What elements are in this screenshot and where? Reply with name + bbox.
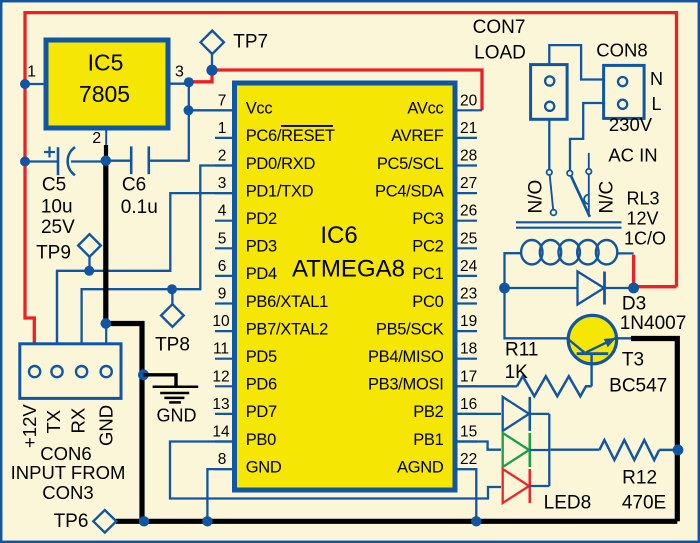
pin number 6 left: [218, 258, 227, 275]
test point TP7: [201, 31, 224, 54]
pin number 8 left: [218, 451, 227, 468]
resistor R11 1K: [517, 376, 592, 396]
pin label 1 of IC5: [27, 64, 36, 81]
pin number 27 right: [460, 175, 477, 192]
pin 5 stub left: [215, 247, 236, 249]
svg-text:14: 14: [212, 424, 230, 441]
pin 27 stub right: [454, 192, 478, 194]
pin 10 stub left: [215, 330, 236, 332]
svg-text:7: 7: [218, 92, 227, 109]
test point TP8: [161, 304, 184, 327]
wire relay junction to T3 collector: [505, 288, 569, 338]
relay pole contact and lever: [567, 171, 590, 217]
ground symbol GND: [143, 375, 198, 403]
label TP6: [54, 511, 89, 532]
svg-text:PB4/MISO: PB4/MISO: [368, 348, 444, 366]
svg-text:18: 18: [460, 341, 477, 358]
wire CON7 to CON8 N: [549, 45, 603, 79]
svg-text:6: 6: [218, 258, 227, 275]
wire red +12V to CON6: [25, 162, 34, 345]
svg-text:IC5: IC5: [88, 50, 124, 76]
svg-text:10u: 10u: [41, 196, 73, 217]
wire TP8 stem: [171, 289, 173, 304]
pin name PD1/TXD: [246, 182, 314, 200]
node D3 cathode junction: [628, 283, 639, 294]
node Vcc junction pin7: [184, 105, 194, 115]
test point TP9: [78, 234, 101, 257]
pin name PC5/SCL: [377, 155, 444, 173]
wire pin2 PD0/RXD to CON6 RX: [82, 166, 235, 346]
pin number 28 right: [460, 148, 477, 165]
pin name PC0: [412, 293, 443, 311]
svg-text:25: 25: [460, 230, 477, 247]
svg-text:7805: 7805: [79, 81, 130, 107]
pin name PB2: [413, 403, 443, 421]
label N/C: [597, 181, 618, 214]
label 230V: [609, 114, 653, 135]
node TP9 junction: [84, 266, 94, 276]
svg-text:AGND: AGND: [397, 458, 444, 476]
svg-text:PD5: PD5: [246, 348, 277, 366]
wire pin22 AGND to ground bus: [454, 469, 477, 521]
svg-text:3: 3: [175, 64, 184, 81]
pin name PD4: [246, 265, 277, 283]
svg-text:25V: 25V: [41, 217, 75, 238]
pin name PB6/XTAL1: [246, 293, 328, 311]
svg-text:17: 17: [460, 368, 477, 385]
label INPUT FROM: [11, 462, 126, 483]
pin label 2 of IC5: [92, 130, 101, 147]
svg-text:2: 2: [92, 130, 101, 147]
svg-text:2: 2: [218, 148, 227, 165]
wire pin8 GND to ground bus: [207, 469, 234, 521]
svg-text:L: L: [651, 94, 661, 114]
svg-text:PC1: PC1: [412, 265, 443, 283]
pin 18 stub right: [454, 358, 478, 360]
svg-text:TP9: TP9: [36, 242, 71, 263]
svg-text:IC6: IC6: [320, 222, 357, 249]
wire black IC5 pin2 down: [104, 145, 108, 161]
svg-text:28: 28: [460, 148, 477, 165]
connector CON7: [531, 65, 568, 120]
pin name PD2: [246, 210, 277, 228]
svg-text:LED8: LED8: [544, 493, 592, 514]
pin 20 stub right: [454, 109, 483, 111]
pin number 11 left: [213, 341, 229, 358]
pin name PC3: [412, 210, 443, 228]
svg-text:470E: 470E: [622, 493, 666, 514]
svg-text:PD7: PD7: [246, 403, 277, 421]
pin name PB4/MISO: [368, 348, 444, 366]
pin label 3 of IC5: [175, 64, 184, 81]
microcontroller IC6 body: [235, 83, 456, 490]
pin 1 stub left: [215, 137, 236, 139]
wire LED8 to R12: [551, 449, 600, 451]
wire 5V vertical rail x=189: [150, 83, 189, 161]
svg-text:LOAD: LOAD: [474, 43, 526, 64]
transistor T3 BC547: [568, 315, 617, 386]
node ground chain corner junction (over black): [101, 318, 111, 328]
label TX: [43, 410, 64, 434]
pin number 5 left: [218, 230, 227, 247]
node C5 C6 ground junction (over black): [101, 156, 111, 166]
pin number 23 right: [460, 286, 477, 303]
relay coil RL3: [505, 240, 634, 288]
pin number 24 right: [460, 258, 478, 275]
label D3: [620, 294, 687, 335]
svg-text:24: 24: [460, 258, 478, 275]
svg-text:PC0: PC0: [412, 293, 443, 311]
label R12: [622, 468, 666, 514]
svg-text:22: 22: [460, 451, 477, 468]
svg-text:+12V: +12V: [19, 404, 40, 448]
svg-text:PB0: PB0: [246, 431, 276, 449]
svg-text:N/C: N/C: [597, 181, 618, 214]
node bus junction TP6: [139, 516, 149, 526]
wire CON8 L to pole: [570, 103, 604, 170]
label GND symbol: [157, 405, 197, 425]
pin 6 stub left: [215, 275, 236, 277]
label C6 value: [121, 175, 158, 219]
svg-text:GND: GND: [246, 458, 282, 476]
pin name PD6: [246, 376, 277, 394]
wire red to relay coil right terminal: [634, 255, 677, 287]
svg-text:RL3: RL3: [626, 189, 659, 209]
svg-text:ATMEGA8: ATMEGA8: [292, 256, 405, 283]
wire cap rail left: [25, 160, 57, 162]
svg-text:12V: 12V: [626, 209, 658, 229]
pin number 10 left: [212, 313, 230, 330]
pin number 15 right: [460, 424, 477, 441]
pin name PC4/SDA: [375, 182, 444, 200]
svg-text:CON8: CON8: [596, 40, 647, 61]
label N/O: [526, 180, 547, 214]
wire pin16 PB2 to LED8 blue: [454, 413, 502, 415]
label IC6: [320, 222, 357, 249]
regulator IC5 7805: [46, 40, 168, 128]
svg-text:CON6: CON6: [40, 443, 91, 464]
svg-text:1N4007: 1N4007: [620, 313, 687, 334]
wire pin14 PB0 to LED8 red: [170, 442, 501, 499]
label TP8: [155, 335, 190, 356]
svg-text:BC547: BC547: [609, 376, 667, 397]
svg-text:20: 20: [460, 92, 478, 109]
svg-text:8: 8: [218, 451, 227, 468]
wire T3 emitter short: [615, 337, 634, 339]
wire TP7 stem: [211, 53, 213, 70]
svg-text:10: 10: [212, 313, 230, 330]
svg-text:N/O: N/O: [526, 180, 547, 214]
svg-text:PB3/MOSI: PB3/MOSI: [368, 376, 444, 394]
svg-text:GND: GND: [157, 405, 197, 425]
wire CON6 GND pin: [105, 324, 107, 346]
svg-text:PD4: PD4: [246, 265, 277, 283]
svg-text:4: 4: [218, 203, 227, 220]
node +12V C5 junction: [20, 157, 30, 167]
pin number 4 left: [218, 203, 227, 220]
wire IC5 pin2 stub: [105, 128, 107, 146]
pin number 9 left: [218, 286, 227, 303]
svg-text:INPUT FROM: INPUT FROM: [11, 462, 126, 483]
label C5 value: [41, 175, 75, 239]
pin 13 stub left: [215, 413, 236, 415]
pin name PB0: [246, 431, 276, 449]
pin name AVcc: [407, 100, 443, 118]
pin name AVREF: [391, 127, 444, 145]
label +12V: [19, 404, 40, 448]
svg-text:21: 21: [460, 120, 477, 137]
wire pin7 Vcc: [189, 109, 235, 111]
label RX: [68, 408, 89, 434]
svg-text:PD3: PD3: [246, 238, 277, 256]
svg-text:3: 3: [218, 175, 227, 192]
label N: [650, 69, 663, 89]
pin number 3 left: [218, 175, 227, 192]
pin 15 stub right: [454, 440, 478, 442]
pin 11 stub left: [215, 358, 236, 360]
resistor R12 470E: [599, 440, 673, 460]
pin 14 stub left: [215, 440, 236, 442]
wire pin17 PB3/MOSI to R11: [454, 385, 518, 387]
svg-text:0.1u: 0.1u: [121, 197, 158, 218]
LED8 green LED: [503, 433, 550, 467]
label CON6: [40, 443, 91, 464]
pin number 17 right: [460, 368, 477, 385]
node IC5 pin1 junction: [20, 79, 30, 89]
svg-text:GND: GND: [96, 405, 117, 446]
pin name PC2: [412, 238, 443, 256]
wire IC5 pin3: [168, 83, 190, 85]
label CON7: [473, 17, 526, 38]
wire red 5V rail from IC5 pin3 to AVcc pin 20: [190, 70, 482, 110]
node bus junction pin8: [202, 516, 212, 526]
wire black emitter to right riser: [631, 339, 677, 522]
relay core lines: [516, 222, 622, 227]
pin number 26 right: [460, 203, 477, 220]
wire black ground chain: [106, 161, 142, 522]
pin number 21 right: [460, 120, 477, 137]
pin 28 stub right: [454, 164, 478, 166]
pin name PC6/RESET: [246, 126, 335, 145]
capacitor C5 plus sign: [44, 147, 55, 158]
svg-text:1: 1: [218, 120, 227, 137]
pin number 1 left: [218, 120, 227, 137]
pin name AGND: [397, 458, 444, 476]
svg-text:230V: 230V: [609, 114, 653, 135]
label LOAD: [474, 43, 526, 64]
pin number 14 left: [212, 424, 230, 441]
svg-text:16: 16: [460, 396, 477, 413]
svg-text:26: 26: [460, 203, 477, 220]
svg-text:1: 1: [27, 64, 36, 81]
pin 8 stub left: [215, 468, 236, 470]
label R11: [505, 340, 539, 383]
svg-text:PB6/XTAL1: PB6/XTAL1: [246, 293, 328, 311]
label L: [651, 94, 661, 114]
wire coil left to D3 anode: [505, 287, 578, 289]
connector CON8: [604, 65, 645, 118]
label TP9: [36, 242, 71, 263]
pin number 16 right: [460, 396, 477, 413]
label AC IN: [608, 145, 657, 166]
svg-text:27: 27: [460, 175, 477, 192]
svg-text:AVREF: AVREF: [391, 127, 444, 145]
label LED8: [544, 493, 592, 514]
pin name GND: [246, 458, 282, 476]
pin number 25 right: [460, 230, 477, 247]
wire LED cathodes common: [548, 414, 550, 486]
node TP8 junction: [167, 284, 177, 294]
test point TP6: [93, 510, 116, 533]
pin number 20 right: [460, 92, 478, 109]
pin number 13 left: [212, 396, 229, 413]
svg-text:RX: RX: [68, 408, 89, 434]
svg-text:TX: TX: [43, 410, 64, 434]
svg-text:PC4/SDA: PC4/SDA: [375, 182, 444, 200]
capacitor C6: [131, 146, 149, 174]
label TP7: [233, 32, 268, 53]
svg-text:23: 23: [460, 286, 477, 303]
pin number 22 right: [460, 451, 477, 468]
svg-text:15: 15: [460, 424, 477, 441]
wire CON7 to N/O contact: [548, 119, 550, 169]
pin name PB7/XTAL2: [246, 320, 328, 338]
label GND pin: [96, 405, 117, 446]
svg-text:PD1/TXD: PD1/TXD: [246, 182, 314, 200]
pin 3 stub left: [215, 192, 236, 194]
relay contact N/O: [547, 170, 557, 216]
pin 9 stub left: [215, 302, 236, 304]
svg-text:AVcc: AVcc: [407, 100, 443, 118]
svg-text:5: 5: [218, 230, 227, 247]
pin 23 stub right: [454, 302, 478, 304]
svg-text:PB1: PB1: [413, 431, 443, 449]
capacitor C5: [58, 147, 106, 175]
svg-text:C5: C5: [42, 175, 66, 196]
pin number 19 right: [460, 313, 477, 330]
pin name PB3/MOSI: [368, 376, 444, 394]
pin 2 stub left: [215, 164, 236, 166]
svg-text:9: 9: [218, 286, 227, 303]
node D3 anode junction: [499, 283, 510, 294]
wire IC5 pin1: [25, 83, 46, 85]
node GND tap junction: [138, 369, 149, 380]
pin number 12 left: [212, 368, 229, 385]
pin 16 stub right: [454, 413, 478, 415]
svg-text:PC5/SCL: PC5/SCL: [377, 155, 444, 173]
svg-text:AC IN: AC IN: [608, 145, 657, 166]
label RL3: [624, 189, 666, 249]
svg-text:PB7/XTAL2: PB7/XTAL2: [246, 320, 328, 338]
svg-text:CON7: CON7: [473, 17, 526, 38]
pin name PD0/RXD: [246, 155, 316, 173]
pin 21 stub right: [454, 137, 478, 139]
wire CON6 TX riser: [56, 271, 58, 345]
label T3: [609, 350, 667, 397]
pin name PB1: [413, 431, 443, 449]
wire pin3 PD1/TXD to CON6 TX: [57, 193, 235, 345]
svg-text:PC6/RESET: PC6/RESET: [246, 127, 335, 145]
svg-text:PB5/SCK: PB5/SCK: [376, 320, 444, 338]
pin 24 stub right: [454, 275, 478, 277]
svg-text:PC2: PC2: [412, 238, 443, 256]
label CON8: [596, 40, 647, 61]
LED8 blue LED: [503, 397, 550, 431]
pin 19 stub right: [454, 330, 478, 332]
svg-text:R11: R11: [505, 340, 538, 361]
svg-text:12: 12: [212, 368, 229, 385]
pin name PD7: [246, 403, 277, 421]
pin number 7 left: [218, 92, 227, 109]
node TP7 junction: [206, 65, 217, 76]
pin name PC1: [412, 265, 443, 283]
svg-text:N: N: [650, 69, 663, 89]
pin name PD3: [246, 238, 277, 256]
pin number 18 right: [460, 341, 477, 358]
svg-text:T3: T3: [622, 350, 644, 371]
svg-text:R12: R12: [622, 468, 657, 489]
svg-text:19: 19: [460, 313, 477, 330]
pin name PB5/SCK: [376, 320, 444, 338]
svg-text:PD2: PD2: [246, 210, 277, 228]
label ATMEGA8: [292, 256, 405, 283]
LED8 red LED: [503, 469, 550, 503]
svg-text:CON3: CON3: [42, 482, 93, 503]
svg-text:PD0/RXD: PD0/RXD: [246, 155, 316, 173]
svg-text:TP7: TP7: [233, 32, 268, 53]
wire +12V red trunk (left riser, top rail, right riser): [25, 13, 677, 287]
relay contact N/C: [584, 153, 591, 217]
svg-text:13: 13: [212, 396, 229, 413]
pin 26 stub right: [454, 220, 478, 222]
svg-text:PC3: PC3: [412, 210, 443, 228]
svg-text:PD6: PD6: [246, 376, 277, 394]
pin number 2 left: [218, 148, 227, 165]
svg-text:TP8: TP8: [155, 335, 190, 356]
svg-text:D3: D3: [622, 294, 646, 315]
node IC5 pin3 junction: [184, 77, 194, 87]
pin 22 stub right: [454, 468, 478, 470]
svg-text:1C/O: 1C/O: [624, 228, 666, 248]
wire pin15 PB1 to LED8 green: [454, 442, 502, 450]
svg-text:C6: C6: [122, 175, 146, 196]
node C5/C6/GND junction: [101, 156, 111, 166]
pin name Vcc: [246, 100, 273, 118]
diode D3 1N4007: [578, 272, 634, 305]
pin name PD5: [246, 348, 277, 366]
svg-text:11: 11: [213, 341, 229, 358]
node R12 junction: [673, 445, 684, 456]
wire to C6: [106, 160, 131, 162]
connector CON6: [20, 344, 121, 399]
pin 17 stub right: [454, 385, 478, 387]
label CON3: [42, 482, 93, 503]
node ground chain junction: [101, 318, 111, 328]
svg-text:PB2: PB2: [413, 403, 443, 421]
pin 4 stub left: [215, 220, 236, 222]
svg-text:TP6: TP6: [54, 511, 89, 532]
svg-text:Vcc: Vcc: [246, 100, 273, 118]
svg-text:1K: 1K: [505, 362, 529, 383]
wire black ground bus: [116, 519, 677, 524]
wire TP9 stem: [88, 255, 90, 271]
pin 12 stub left: [215, 385, 236, 387]
node bus junction pin22: [471, 516, 481, 526]
pin 25 stub right: [454, 247, 478, 249]
